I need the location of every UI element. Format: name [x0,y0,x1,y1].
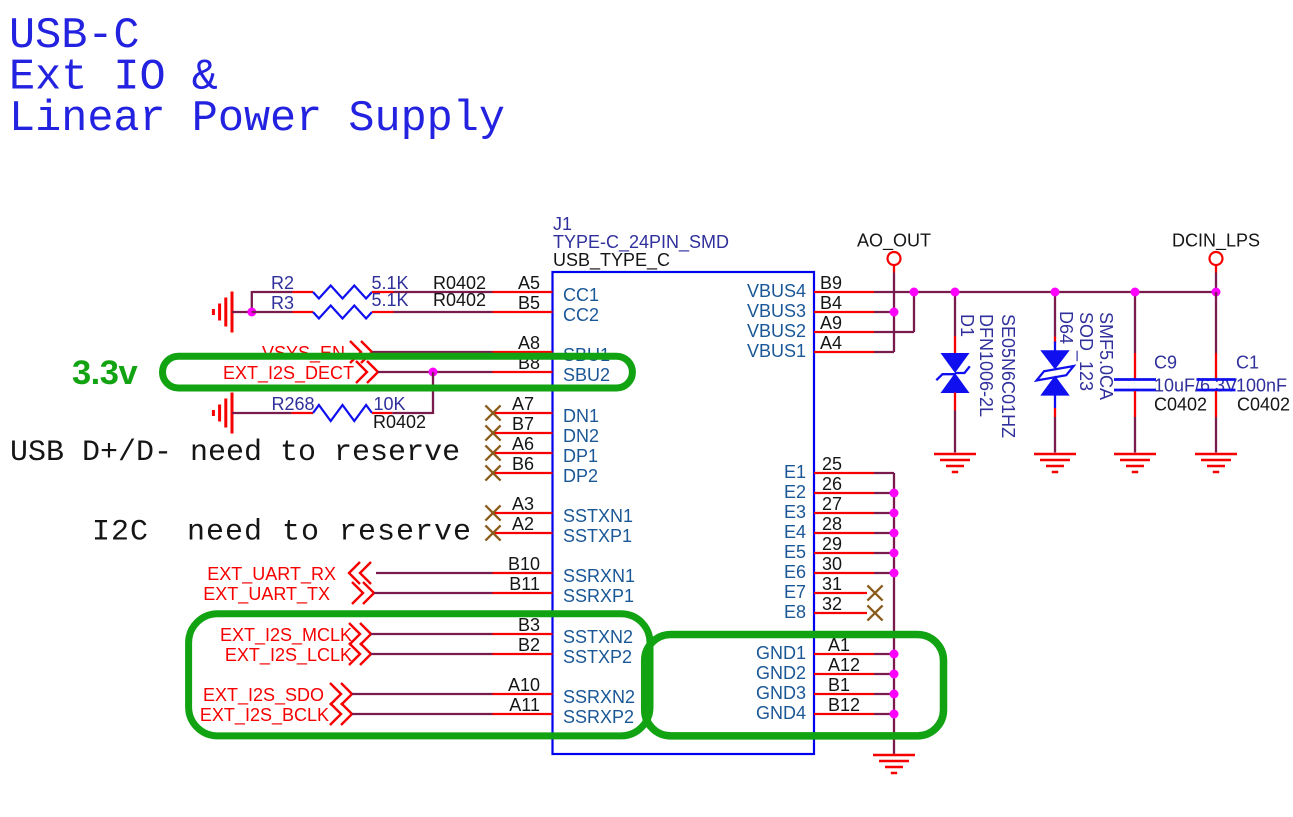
wire E pin row 573 to bus [874,572,894,574]
resistor R268 [272,394,427,432]
svg-text:B7: B7 [512,414,534,434]
wire EXT_I2S_DECT to pin B8 [378,371,493,373]
junction node DECT/R268 [429,368,438,377]
pin B7 DN2 [493,414,600,446]
svg-text:SMF5.0CA: SMF5.0CA [1096,312,1116,400]
pin B10 SSRXN1 [493,554,636,586]
wire bus to D64 [1054,292,1056,337]
svg-text:C0402: C0402 [1237,395,1290,415]
svg-text:Linear Power Supply: Linear Power Supply [9,95,505,144]
junction node B4/AO [890,308,899,317]
wire pin A4 to AO net [874,351,894,353]
svg-text:26: 26 [822,474,842,494]
svg-text:SSTXN2: SSTXN2 [563,627,633,647]
svg-text:E2: E2 [784,482,806,502]
ground at bottom of bus [873,755,915,773]
no-connect X at pin row 453 [485,445,500,460]
svg-text:A12: A12 [828,655,860,675]
svg-text:25: 25 [822,454,842,474]
junction node bus 714 [890,710,899,719]
wire VSYS_EN to pin A8 [372,351,493,353]
svg-text:EXT_UART_TX: EXT_UART_TX [203,584,330,605]
pin B5 CC2 [493,293,600,325]
svg-text:DCIN_LPS: DCIN_LPS [1172,231,1260,252]
pin B3 SSTXN2 [493,615,634,647]
wire VBUS main bus [874,291,1216,293]
svg-text:A11: A11 [509,695,540,715]
net label EXT_I2S_BCLK [200,703,352,726]
svg-text:C9: C9 [1154,353,1177,373]
svg-text:B9: B9 [820,273,842,293]
svg-text:3.3v: 3.3v [72,354,138,392]
pin 29 E5 [784,534,874,562]
transistor-free TVS diode D1 [936,314,1018,438]
wire E pin row 513 to bus [874,512,894,514]
pin A6 DP1 [493,434,599,466]
svg-text:E6: E6 [784,562,806,582]
svg-text:DN1: DN1 [563,406,599,426]
port AO_OUT [857,231,931,266]
wire E pin row 493 to bus [874,492,894,494]
pin A5 CC1 [493,273,600,305]
svg-text:32: 32 [822,594,842,614]
junction node D1/bus [951,288,960,297]
svg-text:USB_TYPE_C: USB_TYPE_C [553,250,670,271]
wire E pin row 553 to bus [874,552,894,554]
wire pin 25 to gnd bus [874,472,894,474]
junction node bus 513 [890,509,899,518]
pin 32 E8 [784,594,867,622]
svg-text:SSTXP2: SSTXP2 [563,647,632,667]
svg-text:VBUS1: VBUS1 [747,341,806,361]
net label EXT_UART_TX [203,582,374,605]
wire GND pin row 694 to bus [874,693,894,695]
pin B1 GND3 [756,675,874,703]
pin A9 VBUS2 [747,313,874,341]
net label EXT_I2S_LCLK [225,643,371,666]
net label EXT_I2S_DECT [223,361,378,384]
svg-text:A8: A8 [518,333,540,353]
svg-text:B6: B6 [512,454,534,474]
svg-text:SSRXP2: SSRXP2 [563,707,634,727]
svg-text:VBUS4: VBUS4 [747,281,806,301]
wire E pin row 533 to bus [874,532,894,534]
pin A12 GND2 [756,655,874,683]
svg-text:A6: A6 [512,434,534,454]
pin B11 SSRXP1 [493,574,635,606]
svg-text:B4: B4 [820,293,842,313]
net label EXT_I2S_MCLK [220,623,371,646]
no-connect X at pin row 473 [485,465,500,480]
svg-text:AO_OUT: AO_OUT [857,231,931,252]
wire EXT_I2S_LCLK to pin [371,653,493,655]
junction node bus 674 [890,670,899,679]
svg-text:DN2: DN2 [563,426,599,446]
pin 30 E6 [784,554,874,582]
svg-text:EXT_UART_RX: EXT_UART_RX [207,564,336,585]
svg-text:10K: 10K [374,394,406,414]
pin B2 SSTXP2 [493,635,633,667]
wire R2 to pin A5 [394,291,493,293]
resistor R3 [252,290,486,319]
junction node bus 654 [890,650,899,659]
title text [9,12,505,144]
svg-text:GND4: GND4 [756,703,806,723]
svg-text:SSRXN1: SSRXN1 [563,566,635,586]
pin B4 VBUS3 [747,293,874,321]
wire bus to D1 [954,292,956,336]
pin A10 SSRXN2 [493,675,636,707]
svg-text:EXT_I2S_SDO: EXT_I2S_SDO [203,685,324,706]
net label VSYS_EN [262,341,372,364]
junction node DCIN/bus [1212,288,1221,297]
svg-text:SBU2: SBU2 [563,365,610,385]
junction node bus 553 [890,549,899,558]
wire C1 to ground [1215,417,1217,453]
svg-text:27: 27 [822,494,842,514]
svg-text:SSRXP1: SSRXP1 [563,586,634,606]
svg-text:EXT_I2S_LCLK: EXT_I2S_LCLK [225,645,352,666]
connector J1 box [553,272,815,754]
svg-text:E1: E1 [784,462,806,482]
svg-text:B12: B12 [828,695,860,715]
capacitor C9 [1114,353,1237,418]
wire GND pin row 674 to bus [874,673,894,675]
svg-text:EXT_I2S_BCLK: EXT_I2S_BCLK [200,705,329,726]
pin 31 E7 [784,574,867,602]
svg-text:A5: A5 [518,273,540,293]
svg-text:SOD_123: SOD_123 [1075,312,1096,391]
ground under C1 [1195,454,1237,472]
svg-text:SSTXP1: SSTXP1 [563,526,632,546]
svg-text:B3: B3 [518,615,540,635]
wire GND pin row 714 to bus [874,713,894,715]
svg-text:30: 30 [822,554,842,574]
junction node bus 694 [890,690,899,699]
net label EXT_I2S_SDO [203,683,352,706]
pin A7 DN1 [493,394,600,426]
svg-text:R3: R3 [271,293,294,313]
pin A3 SSTXN1 [493,494,634,526]
svg-text:5.1K: 5.1K [372,290,409,310]
svg-text:B1: B1 [828,675,850,695]
wire bus to C1 [1215,292,1217,353]
svg-text:E8: E8 [784,602,806,622]
svg-text:E4: E4 [784,522,806,542]
svg-text:C1: C1 [1236,353,1259,373]
svg-text:EXT_I2S_DECT: EXT_I2S_DECT [223,363,354,384]
wire R3 to pin B5 [394,311,493,313]
junction node CC ground [247,308,256,317]
svg-text:100nF: 100nF [1236,376,1287,396]
no-connect X at pin row 413 [485,405,500,420]
svg-text:R268: R268 [272,394,315,414]
pin B12 GND4 [756,695,874,723]
svg-text:E7: E7 [784,582,806,602]
junction node bus 493 [890,489,899,498]
wire ground to R268 [232,412,291,414]
svg-text:A3: A3 [512,494,534,514]
pin B6 DP2 [493,454,599,486]
wire R268 to DECT junction [392,412,433,414]
wire pin A9 riser [874,331,914,333]
no-connect X at pin row 533 [485,525,500,540]
svg-text:SSRXN2: SSRXN2 [563,687,635,707]
svg-text:R2: R2 [271,273,294,293]
junction node C9/bus [1131,288,1140,297]
wire C9 to ground [1134,417,1136,453]
ground symbol (R268) [213,393,232,434]
junction node bus 533 [890,529,899,538]
port DCIN_LPS [1172,231,1260,266]
green highlight oval SBU2 [163,356,633,388]
svg-text:SSTXN1: SSTXN1 [563,506,633,526]
svg-text:B11: B11 [509,574,540,594]
svg-text:31: 31 [822,574,842,594]
no-connect X pin 31 [867,585,882,600]
wire D64 to ground [1054,417,1056,453]
J1 reference designator [553,214,729,253]
wire pin B4 to AO net [874,311,894,313]
wire ground to junction [232,311,252,313]
wire AO_OUT down to VBUS1 row [893,265,895,273]
pin 28 E4 [784,514,874,542]
TVS diode D64 [1037,311,1117,417]
svg-text:CC2: CC2 [563,305,599,325]
ground under D1 [934,454,976,472]
svg-text:B10: B10 [508,554,540,574]
svg-text:GND2: GND2 [756,663,806,683]
net label EXT_UART_RX [207,562,371,585]
svg-text:SE05N6C01HZ: SE05N6C01HZ [998,314,1018,438]
svg-text:R0402: R0402 [433,290,486,310]
svg-text:GND3: GND3 [756,683,806,703]
wire DCIN_LPS to bus [1215,265,1217,273]
svg-text:D1: D1 [957,314,977,337]
pin A11 SSRXP2 [493,695,635,727]
svg-text:A10: A10 [508,675,540,695]
svg-text:A7: A7 [512,394,534,414]
pin B8 SBU2 [493,353,611,385]
svg-text:EXT_I2S_MCLK: EXT_I2S_MCLK [220,625,352,646]
svg-text:DP1: DP1 [563,446,598,466]
green highlight oval GND [645,635,944,736]
wire vertical junction to R2 row [251,291,253,312]
svg-text:USB D+/D- need to reserve: USB D+/D- need to reserve [10,436,460,470]
wire EXT_I2S_BCLK to pin [352,713,493,715]
no-connect X at pin row 433 [485,425,500,440]
wire EXT_UART_RX to pin [376,572,493,574]
green highlight oval I2S left [189,614,650,736]
pin A8 SBU1 [493,333,611,365]
svg-text:B2: B2 [518,635,540,655]
junction node bus 573 [890,569,899,578]
svg-text:D64: D64 [1056,311,1076,344]
svg-text:VBUS2: VBUS2 [747,321,806,341]
svg-text:DFN1006-2L: DFN1006-2L [976,314,996,417]
svg-text:GND1: GND1 [756,643,806,663]
wire gnd bus vertical [893,473,895,754]
svg-text:DP2: DP2 [563,466,598,486]
svg-text:B5: B5 [518,293,540,313]
junction node A9/bus [910,288,919,297]
svg-text:A4: A4 [820,333,842,353]
svg-text:J1: J1 [553,214,572,234]
svg-text:E5: E5 [784,542,806,562]
pin 25 E1 [784,454,874,482]
pin 26 E2 [784,474,874,502]
pin B9 VBUS4 [747,273,874,301]
ground under C9 [1114,454,1156,472]
wire EXT_UART_TX to pin [374,592,493,594]
junction node D64/bus [1051,288,1060,297]
svg-text:VBUS3: VBUS3 [747,301,806,321]
pin A4 VBUS1 [747,333,874,361]
svg-text:A9: A9 [820,313,842,333]
svg-text:C0402: C0402 [1154,395,1207,415]
no-connect X pin 32 [867,605,882,620]
pin A2 SSTXP1 [493,514,633,546]
capacitor C1 [1197,353,1291,418]
svg-text:CC1: CC1 [563,285,599,305]
ground symbol (CC pulldown) [213,292,232,333]
wire GND pin row 654 to bus [874,653,894,655]
svg-text:A2: A2 [512,514,534,534]
wire EXT_I2S_MCLK to pin [371,633,493,635]
resistor R2 [252,273,486,299]
svg-text:E3: E3 [784,502,806,522]
wire EXT_I2S_SDO to pin [352,693,493,695]
wire bus to C9 [1134,292,1136,353]
pin A1 GND1 [756,635,874,663]
ground under D64 [1034,454,1076,472]
svg-text:29: 29 [822,534,842,554]
svg-text:I2C need to reserve: I2C need to reserve [92,516,472,550]
pin 27 E3 [784,494,874,522]
svg-text:R0402: R0402 [373,412,426,432]
svg-text:28: 28 [822,514,842,534]
no-connect X at pin row 513 [485,505,500,520]
wire D1 to ground [954,411,956,453]
